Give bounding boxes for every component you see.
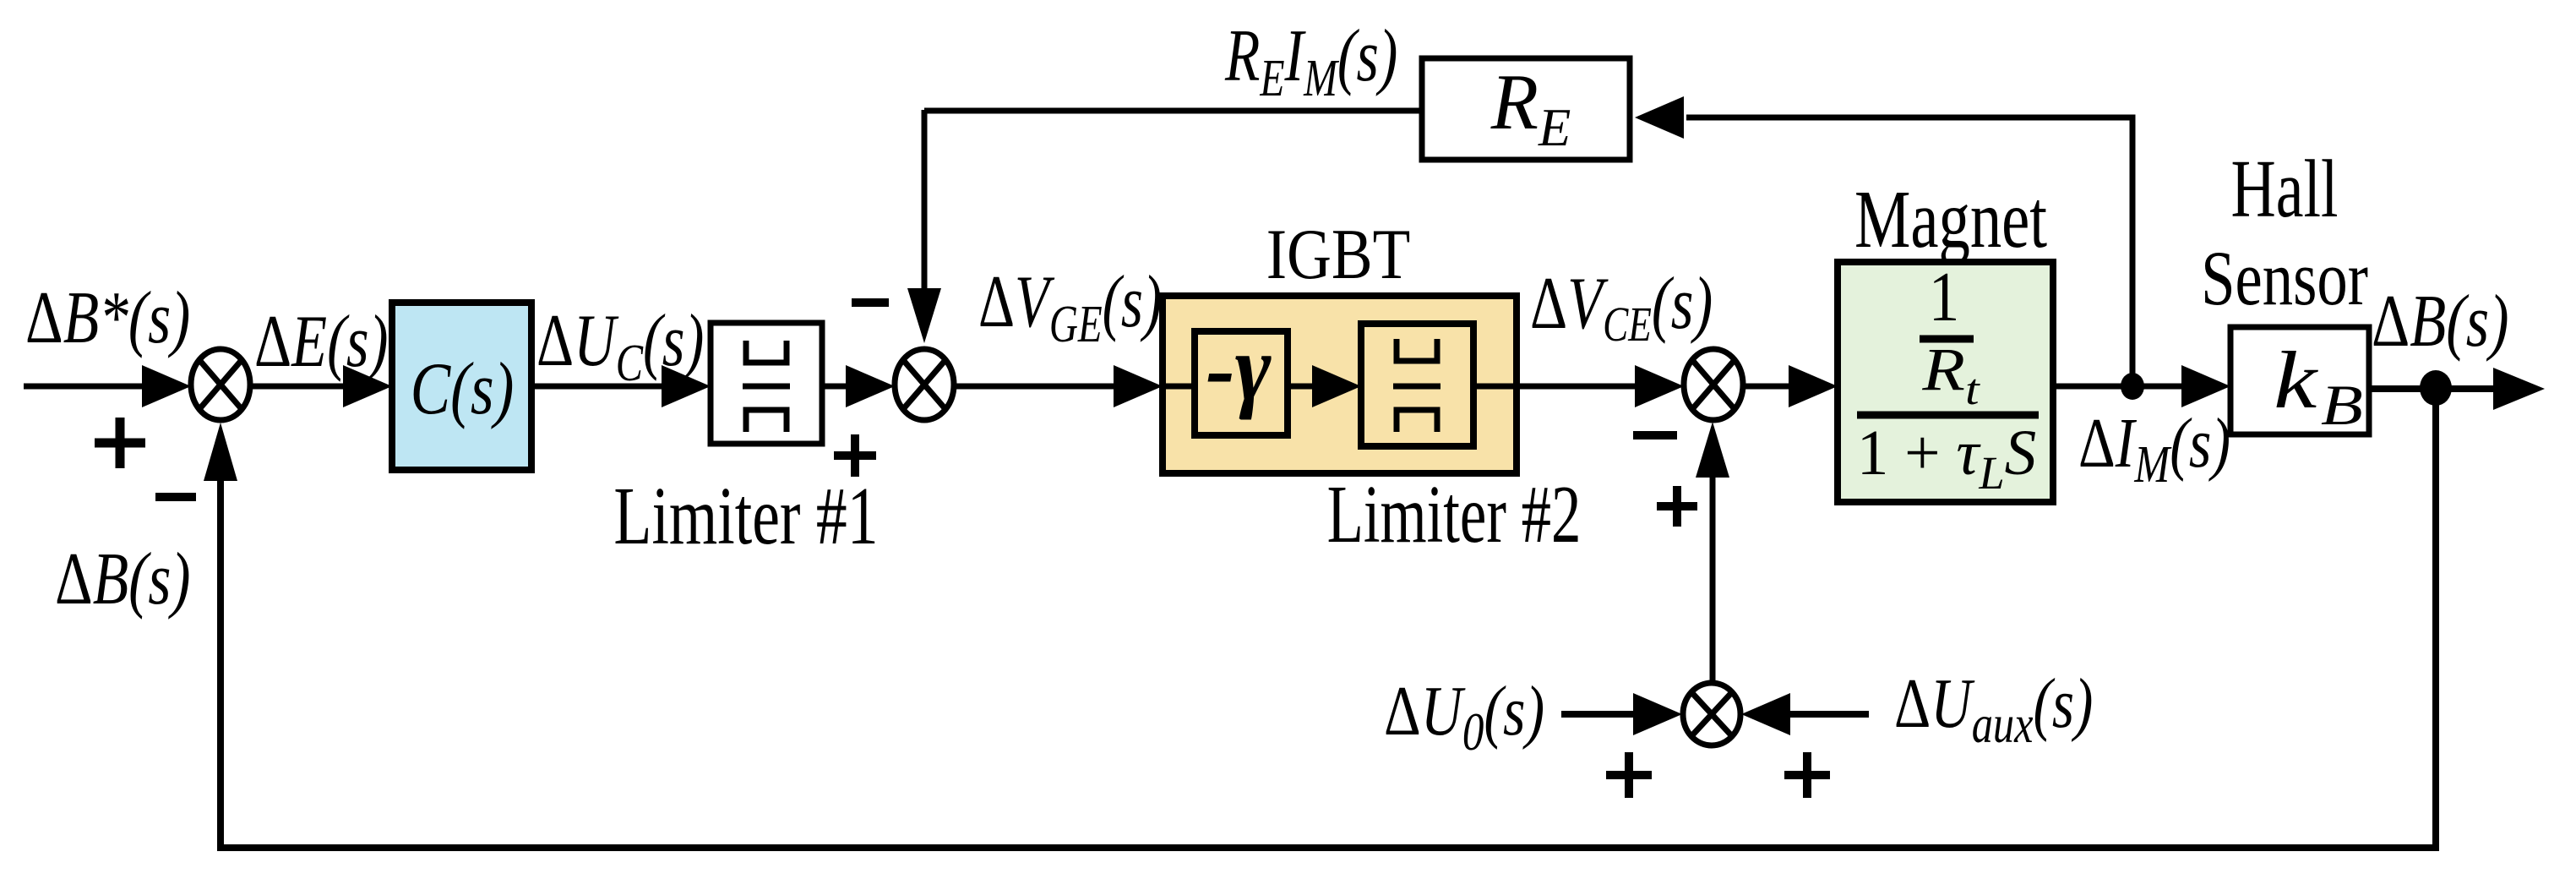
wire input — [24, 384, 145, 390]
plus sign S2 — [834, 434, 876, 477]
wire -γ to Limiter #2 — [1288, 384, 1315, 390]
block Limiter #2 — [1361, 324, 1473, 446]
svg-text:C(s): C(s) — [411, 348, 515, 430]
svg-text:1: 1 — [1929, 258, 1960, 336]
svg-text:ΔB(s): ΔB(s) — [55, 538, 191, 620]
svg-text:Sensor: Sensor — [2201, 235, 2368, 321]
block C(s) — [392, 303, 531, 470]
wire Magnet to node N1 — [2053, 384, 2185, 390]
minus sign S1 — [155, 493, 196, 501]
wire IGBT to S3 — [1517, 384, 1638, 390]
svg-text:Limiter #1: Limiter #1 — [613, 470, 878, 561]
block IGBT — [1163, 296, 1517, 473]
svg-text:1 + τLS: 1 + τLS — [1857, 418, 2037, 499]
node N2 junction dot — [2420, 370, 2452, 406]
wire ΔU_aux into S4 — [1789, 711, 1869, 718]
arrowhead into Magnet — [1789, 365, 1838, 407]
arrowhead into k_B — [2181, 365, 2230, 407]
block Magnet transfer function — [1838, 258, 2053, 502]
arrowhead down into S2 — [907, 288, 941, 343]
wire R_E to corner above S2 — [924, 108, 1422, 114]
arrowhead into C(s) — [343, 365, 392, 407]
minus sign S3 — [1633, 431, 1677, 439]
wire S4 up into S3 — [1710, 476, 1716, 684]
wire inside IGBT right — [1473, 384, 1517, 390]
svg-text:ΔE(s): ΔE(s) — [254, 301, 388, 383]
block k_B Hall sensor — [2230, 327, 2369, 437]
arrowhead into IGBT — [1114, 365, 1163, 407]
minus sign S2 — [852, 298, 889, 307]
wire k_B to output — [2369, 385, 2494, 392]
arrowhead into S4 left — [1633, 693, 1682, 735]
arrowhead up into S3 — [1696, 422, 1729, 478]
svg-text:Limiter #2: Limiter #2 — [1327, 469, 1582, 560]
svg-text:IGBT: IGBT — [1266, 215, 1411, 294]
summing junction S3 — [1684, 349, 1743, 420]
wire feedback node N1 up to R_E level — [1686, 117, 2132, 387]
wire C(s) to Limiter #1 — [531, 384, 665, 390]
arrowhead into S2 — [846, 365, 895, 407]
svg-text:-γ: -γ — [1206, 316, 1271, 421]
summing junction S1 — [191, 349, 250, 420]
wire S3 to Magnet — [1743, 384, 1792, 390]
arrowhead into Limiter #2 — [1312, 365, 1361, 407]
svg-text:Magnet: Magnet — [1854, 174, 2047, 265]
plus sign S1 — [95, 418, 145, 468]
wire Limiter #1 to S2 — [822, 384, 850, 390]
node N1 junction dot — [2121, 373, 2144, 400]
plus sign S4 right — [1784, 752, 1830, 798]
arrowhead up into S1 — [204, 423, 237, 481]
plus sign S3 — [1657, 486, 1697, 527]
svg-text:ΔB(s): ΔB(s) — [2372, 281, 2509, 363]
wire bottom feedback from N2 — [221, 389, 2436, 848]
block Limiter #1 — [711, 323, 822, 444]
plus sign S4 left — [1606, 752, 1652, 798]
arrowhead into S3 — [1635, 365, 1684, 407]
arrowhead input — [142, 365, 191, 407]
wire ΔU_0 into S4 — [1561, 711, 1634, 718]
arrowhead into R_E — [1635, 96, 1684, 139]
summing junction S2 — [895, 349, 954, 420]
arrowhead into S4 right — [1741, 693, 1790, 735]
svg-text:ΔB*(s): ΔB*(s) — [25, 276, 190, 359]
wire S2 to IGBT — [954, 384, 1117, 390]
wire inside IGBT left — [1163, 384, 1195, 390]
svg-text:Hall: Hall — [2231, 143, 2339, 234]
wire S1 to C(s) — [250, 384, 346, 390]
arrowhead into Limiter #1 — [662, 365, 711, 407]
block R_E — [1422, 58, 1630, 160]
block -γ — [1195, 316, 1288, 435]
wire feedback down into S2 — [922, 110, 928, 290]
arrowhead output — [2493, 368, 2545, 410]
summing junction S4 — [1683, 683, 1740, 745]
